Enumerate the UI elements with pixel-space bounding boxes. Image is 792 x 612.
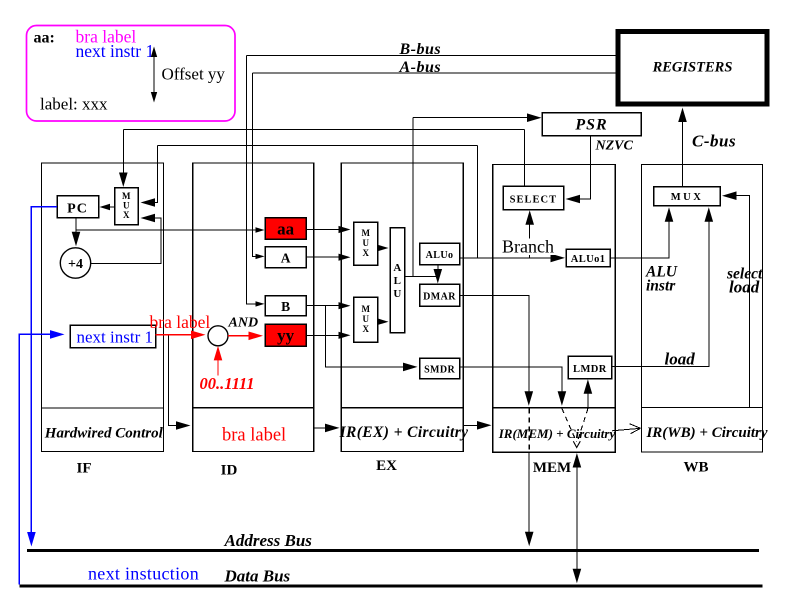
PC box xyxy=(57,196,99,218)
svg-text:B-bus: B-bus xyxy=(399,41,442,58)
red wire AND to yy xyxy=(228,335,259,337)
A-bus wire xyxy=(253,72,616,74)
svg-text:ALUo1: ALUo1 xyxy=(571,254,606,265)
MEM stage box xyxy=(493,165,615,453)
AND gate circle xyxy=(208,326,228,346)
svg-text:load: load xyxy=(729,278,760,297)
svg-text:U: U xyxy=(363,238,370,248)
svg-text:B: B xyxy=(281,299,290,314)
wire SMDR to memory data xyxy=(460,367,562,403)
dashed wire load data through IR(MEM) xyxy=(577,409,588,443)
wire ALUo1 to WB MUX xyxy=(610,211,669,258)
IF MUX box xyxy=(115,188,139,225)
wire PC value to aa latch xyxy=(76,229,261,231)
svg-text:X: X xyxy=(363,324,370,334)
NZVC wire PSR to SELECT xyxy=(568,136,591,200)
wire riser from ALUo1 line xyxy=(477,146,479,258)
Data Bus xyxy=(19,584,762,587)
PSR box xyxy=(542,113,641,136)
svg-text:instr: instr xyxy=(646,278,676,295)
wire ID to EX pipeline arrow xyxy=(314,427,336,429)
wire instr tap down to ID decode xyxy=(168,335,186,426)
svg-text:U: U xyxy=(123,201,130,211)
svg-text:A: A xyxy=(281,251,291,266)
svg-text:L: L xyxy=(394,275,401,287)
ALU box xyxy=(390,228,404,333)
WB MUX box xyxy=(654,187,720,206)
wire riser from ALU output to PSR line xyxy=(412,118,414,277)
svg-text:yy: yy xyxy=(277,326,295,345)
B latch box xyxy=(265,296,306,316)
WB compartment separator xyxy=(642,407,763,409)
wire EX to MEM pipeline arrow xyxy=(463,424,488,426)
svg-text:Data Bus: Data Bus xyxy=(224,567,291,586)
wire branch result up into SELECT xyxy=(529,214,531,258)
WB stage box xyxy=(642,165,763,453)
B-bus drop wire into B latch xyxy=(247,55,262,304)
wire A to EX MUX1 xyxy=(306,256,347,258)
svg-text:U: U xyxy=(363,314,370,324)
wire ALU result to PSR xyxy=(413,117,538,119)
svg-text:M: M xyxy=(362,304,371,314)
REGISTERS box xyxy=(618,32,767,105)
svg-text:bra label: bra label xyxy=(222,426,286,446)
svg-text:REGISTERS: REGISTERS xyxy=(652,60,733,76)
wire MEM box to Address Bus xyxy=(528,452,530,543)
svg-text:ALUo: ALUo xyxy=(426,250,454,261)
svg-text:+4: +4 xyxy=(68,257,83,272)
svg-text:LMDR: LMDR xyxy=(573,364,607,375)
svg-text:Address Bus: Address Bus xyxy=(224,531,313,550)
svg-text:IR(WB) + Circuitry: IR(WB) + Circuitry xyxy=(645,425,767,441)
A latch box xyxy=(265,247,306,268)
svg-text:WB: WB xyxy=(683,460,708,476)
svg-text:load: load xyxy=(665,350,696,369)
wire aa to EX MUX1 xyxy=(306,229,347,231)
svg-text:SMDR: SMDR xyxy=(424,365,455,376)
svg-text:aa: aa xyxy=(277,220,295,239)
wire DMAR to memory address xyxy=(460,296,529,403)
IF stage box xyxy=(42,163,164,452)
ID compartment separator xyxy=(193,407,314,409)
svg-text:ID: ID xyxy=(221,463,238,479)
wire LMDR to WB MUX (load) xyxy=(612,211,709,367)
svg-text:next instuction: next instuction xyxy=(88,564,199,584)
wire +4 output to IF MUX right lower xyxy=(91,218,161,264)
wire drop to SELECT top xyxy=(523,130,525,186)
dashed wire store data through IR(MEM) xyxy=(562,409,577,443)
wire ALUo to DMAR xyxy=(437,265,439,281)
MEM compartment separator xyxy=(493,407,615,409)
dashed wire address through IR(MEM) xyxy=(528,409,530,452)
wire ALUo to ALUo1 xyxy=(460,257,562,259)
svg-text:PSR: PSR xyxy=(574,117,607,134)
Address Bus xyxy=(27,549,759,552)
svg-text:aa:: aa: xyxy=(34,29,55,46)
+4 adder circle xyxy=(60,248,90,278)
EX compartment separator xyxy=(341,407,463,409)
svg-text:X: X xyxy=(363,248,370,258)
SMDR box xyxy=(420,358,460,379)
svg-text:00..1111: 00..1111 xyxy=(200,374,255,393)
wire ALU output xyxy=(405,275,438,277)
svg-text:X: X xyxy=(123,210,130,220)
DMAR box xyxy=(420,284,460,306)
aa latch box (red) xyxy=(265,218,306,240)
B-bus wire xyxy=(247,54,616,56)
wire yy to EX MUX2 xyxy=(306,334,347,336)
IF compartment separator xyxy=(42,407,164,409)
svg-text:MUX: MUX xyxy=(671,192,704,203)
wire MEM box to/from Data Bus xyxy=(576,456,578,580)
svg-text:Offset yy: Offset yy xyxy=(162,65,226,84)
wire PC bottom to +4 xyxy=(75,218,77,244)
ALUo1 box xyxy=(566,249,610,267)
yy latch box (red) xyxy=(265,324,306,346)
red mask wire up into AND xyxy=(217,349,219,376)
wire drop into IF MUX right upper xyxy=(143,146,158,203)
Branch label xyxy=(501,239,555,256)
svg-text:Branch: Branch xyxy=(502,237,554,257)
wire memory data up into LMDR xyxy=(587,383,589,408)
svg-text:next instr 1: next instr 1 xyxy=(76,41,155,61)
legend rounded box xyxy=(27,26,236,122)
svg-text:M: M xyxy=(362,228,371,238)
svg-text:Hardwired Control: Hardwired Control xyxy=(44,426,164,442)
ALUo box xyxy=(420,243,460,264)
svg-text:C-bus: C-bus xyxy=(692,132,736,151)
blue wire Data Bus to next instr latch xyxy=(19,334,60,584)
svg-text:IR(MEM) + Circuitry: IR(MEM) + Circuitry xyxy=(498,426,616,441)
svg-text:U: U xyxy=(393,288,401,300)
EX MUX2 box xyxy=(354,297,378,342)
C-bus wire WB MUX to REGISTERS xyxy=(682,110,684,187)
svg-text:M: M xyxy=(122,191,131,201)
wire MUX to PC xyxy=(102,206,115,208)
EX MUX1 box xyxy=(354,222,378,265)
blue wire PC to Address Bus xyxy=(31,207,57,543)
svg-text:IR(EX) + Circuitry: IR(EX) + Circuitry xyxy=(339,424,469,441)
red wire next instr to AND xyxy=(156,334,202,336)
wire ALU result feedback horizontal (line1) xyxy=(123,129,524,131)
svg-text:IF: IF xyxy=(77,461,92,477)
LMDR box xyxy=(568,356,611,379)
SELECT box xyxy=(503,186,563,210)
wire MEM to WB pipeline open arrow xyxy=(612,428,641,431)
svg-text:A: A xyxy=(393,262,401,274)
next instr 1 latch box xyxy=(70,325,156,348)
ID stage box xyxy=(193,163,314,452)
svg-text:NZVC: NZVC xyxy=(595,139,634,154)
svg-text:label: xxx: label: xxx xyxy=(40,95,108,114)
wire drop into IF MUX top xyxy=(122,130,124,184)
svg-text:bra label: bra label xyxy=(150,312,211,332)
EX stage box xyxy=(341,163,463,452)
svg-text:SELECT: SELECT xyxy=(510,195,557,206)
svg-text:AND: AND xyxy=(228,316,259,331)
svg-text:MEM: MEM xyxy=(533,460,571,476)
wire B to EX MUX2 xyxy=(306,305,347,307)
svg-text:PC: PC xyxy=(67,202,88,217)
svg-text:A-bus: A-bus xyxy=(399,59,442,76)
A-bus drop wire into A latch xyxy=(253,73,262,257)
wire MUX2 to ALU xyxy=(378,321,385,323)
dashed arrowhead xyxy=(573,441,580,447)
wire select load to WB MUX xyxy=(726,196,750,408)
wire MUX1 to ALU xyxy=(378,247,385,249)
svg-text:next instr 1: next instr 1 xyxy=(77,328,154,347)
svg-text:DMAR: DMAR xyxy=(423,292,456,303)
wire B value to SMDR xyxy=(326,306,414,367)
svg-text:EX: EX xyxy=(376,458,397,474)
legend offset double arrow xyxy=(153,51,155,99)
wire ALUo feedback horizontal (line2) xyxy=(158,145,478,147)
